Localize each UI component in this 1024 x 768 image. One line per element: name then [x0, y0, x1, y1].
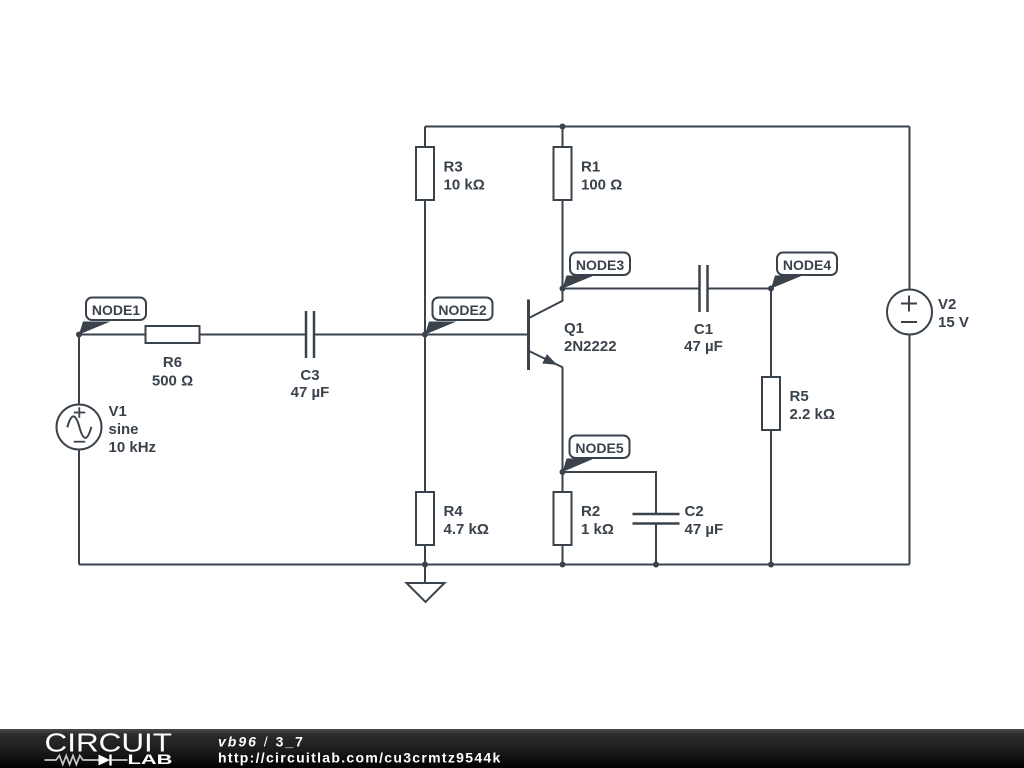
svg-text:500 Ω: 500 Ω [152, 373, 193, 390]
svg-text:R3: R3 [444, 159, 463, 176]
svg-text:10 kHz: 10 kHz [109, 439, 157, 456]
svg-text:47 µF: 47 µF [685, 521, 724, 538]
wire top rail [425, 126, 910, 128]
svg-text:R4: R4 [444, 503, 464, 520]
wire Q1 emitter to node5 [562, 368, 564, 473]
svg-text:http://circuitlab.com/cu3crmtz: http://circuitlab.com/cu3crmtz9544k [218, 750, 502, 766]
svg-text:V2: V2 [938, 296, 956, 313]
svg-text:vb96 / 3_7: vb96 / 3_7 [218, 734, 305, 750]
wire node5 to C2 [563, 472, 657, 514]
node NODE1 label [79, 298, 146, 335]
svg-text:sine: sine [109, 421, 139, 438]
wire node3 to C1 [563, 288, 700, 290]
wire R5 to bottom rail [770, 430, 772, 565]
wire node4 to R5 [770, 289, 772, 378]
capacitor C2 [633, 503, 724, 538]
svg-text:NODE2: NODE2 [438, 302, 486, 318]
wire R6 to C3 [200, 334, 306, 336]
svg-text:Q1: Q1 [564, 320, 584, 337]
node C2 bottom junction [653, 562, 659, 568]
svg-text:NODE3: NODE3 [576, 257, 624, 273]
node NODE3 junction [560, 286, 566, 292]
node NODE2 label [425, 298, 493, 335]
CircuitLab logo [45, 728, 173, 768]
wire C3 to node2 [315, 334, 426, 336]
node NODE5 junction [560, 469, 566, 475]
node top rail junction [560, 124, 566, 130]
svg-text:V1: V1 [109, 403, 127, 420]
svg-text:4.7 kΩ: 4.7 kΩ [444, 521, 489, 538]
svg-text:NODE1: NODE1 [92, 302, 140, 318]
node NODE5 label [563, 436, 630, 473]
wire bottom rail [79, 564, 910, 566]
svg-text:C2: C2 [685, 503, 704, 520]
voltage source V1 [57, 403, 157, 456]
wire R4 to bottom rail [424, 545, 426, 565]
wire node2 to Q1 base [425, 334, 527, 336]
ground [407, 565, 445, 603]
node R2 bottom junction [560, 562, 566, 568]
svg-text:15 V: 15 V [938, 314, 969, 331]
svg-text:47 µF: 47 µF [291, 384, 330, 401]
svg-text:47 µF: 47 µF [684, 338, 723, 355]
node NODE4 label [771, 253, 837, 289]
svg-text:10 kΩ: 10 kΩ [444, 177, 485, 194]
transistor Q1 [529, 289, 617, 371]
wire R1 to node3 [562, 200, 564, 289]
svg-text:NODE4: NODE4 [783, 257, 831, 273]
svg-text:C3: C3 [300, 367, 319, 384]
wire node1 to R6 [79, 334, 146, 336]
svg-text:2.2 kΩ: 2.2 kΩ [790, 406, 835, 423]
svg-text:R2: R2 [581, 503, 600, 520]
svg-text:2N2222: 2N2222 [564, 338, 617, 355]
resistor R4 [416, 492, 489, 545]
wire C2 to bottom rail [655, 524, 657, 565]
wire V1 to bottom rail [78, 450, 80, 565]
resistor R1 [554, 147, 623, 200]
capacitor C3 [291, 311, 330, 401]
node NODE1 junction [76, 332, 82, 338]
voltage source V2 [887, 290, 969, 335]
svg-text:R1: R1 [581, 159, 600, 176]
wire R2 to bottom rail [562, 545, 564, 565]
wire R3 to node2 [424, 200, 426, 335]
node ground junction [422, 562, 428, 568]
capacitor C1 [684, 265, 723, 355]
svg-text:R6: R6 [163, 354, 182, 371]
resistor R2 [554, 492, 614, 545]
svg-text:C1: C1 [694, 321, 713, 338]
wire right rail to V2 [909, 127, 911, 290]
wire node2 to R4 [424, 335, 426, 493]
svg-text:NODE5: NODE5 [575, 440, 623, 456]
wire R3 branch vertical [424, 127, 426, 148]
svg-text:100 Ω: 100 Ω [581, 177, 622, 194]
svg-text:1 kΩ: 1 kΩ [581, 521, 614, 538]
resistor R6 [146, 326, 200, 390]
resistor R5 [762, 377, 835, 430]
wire node5 to R2 [562, 472, 564, 492]
wire V2 to bottom rail [909, 335, 911, 565]
node NODE2 junction [422, 332, 428, 338]
resistor R3 [416, 147, 485, 200]
footer title text [218, 734, 502, 766]
svg-text:LAB: LAB [128, 751, 173, 767]
wire node1 to V1 [78, 335, 80, 405]
wire C1 to node4 [708, 288, 771, 290]
node NODE4 junction [768, 286, 774, 292]
node NODE3 label [563, 253, 631, 289]
svg-text:R5: R5 [790, 388, 809, 405]
node R5 bottom junction [768, 562, 774, 568]
wire R1 branch vertical [562, 127, 564, 148]
